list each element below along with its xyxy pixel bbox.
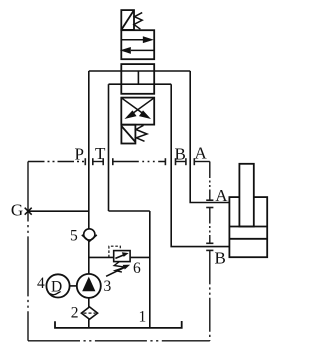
svg-text:6: 6 xyxy=(133,260,141,277)
svg-text:G: G xyxy=(11,200,23,219)
svg-text:4: 4 xyxy=(37,275,45,292)
svg-text:1: 1 xyxy=(139,309,147,326)
svg-text:B: B xyxy=(215,249,226,268)
svg-text:A: A xyxy=(195,144,208,163)
svg-text:3: 3 xyxy=(104,278,112,295)
svg-text:B: B xyxy=(175,145,186,164)
svg-text:T: T xyxy=(95,144,106,163)
svg-text:P: P xyxy=(75,144,84,163)
svg-text:2: 2 xyxy=(71,305,79,322)
svg-text:A: A xyxy=(215,186,228,205)
svg-text:D: D xyxy=(51,279,62,296)
svg-text:5: 5 xyxy=(70,228,78,245)
